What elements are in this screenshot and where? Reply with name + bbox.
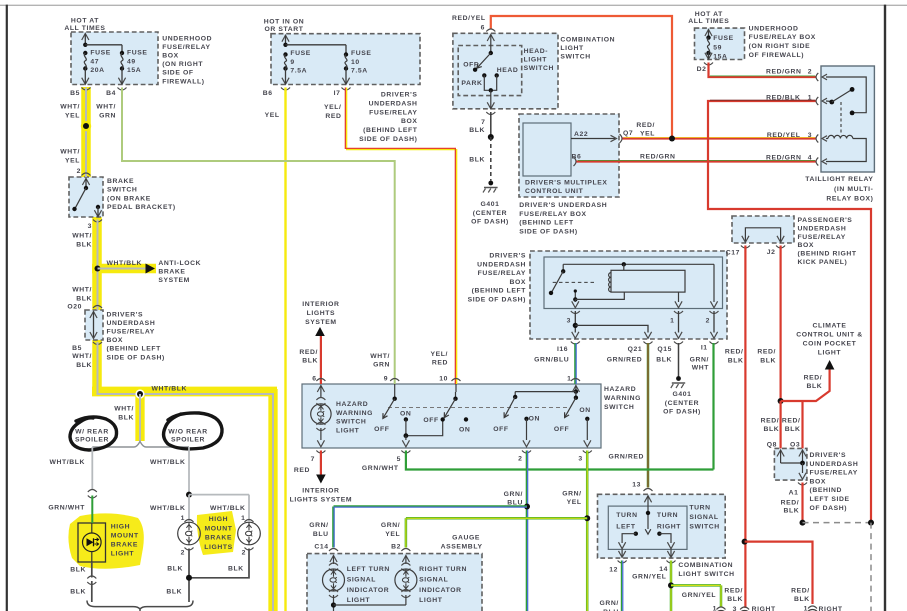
gauge C14 entry (330, 556, 337, 563)
fuse 10 7.5A (344, 52, 348, 56)
svg-text:B5: B5 (72, 345, 82, 352)
svg-text:(BEHIND LEFT: (BEHIND LEFT (107, 346, 162, 353)
svg-text:WARNING: WARNING (604, 395, 641, 402)
svg-text:BLK: BLK (764, 426, 780, 433)
svg-text:BLK: BLK (469, 157, 485, 164)
svg-text:SYSTEM: SYSTEM (305, 319, 337, 326)
svg-text:12: 12 (609, 567, 618, 574)
brake switch box (69, 177, 103, 217)
highlight on WHT/BLK branch to spoiler split (135, 394, 144, 441)
svg-text:C17: C17 (726, 250, 740, 257)
svg-text:(IN MULTI-: (IN MULTI- (834, 186, 873, 193)
svg-text:UNDERDASH: UNDERDASH (369, 100, 418, 107)
lamp high mount brake light 1 (178, 522, 201, 545)
svg-text:GRN: GRN (373, 362, 390, 369)
svg-text:BLK: BLK (70, 567, 86, 574)
gauge lamp bottoms (329, 590, 338, 593)
highlight blob around high mount brake light box (68, 513, 143, 568)
svg-text:HIGH: HIGH (209, 516, 228, 523)
wire BLK Q15 to ground (678, 343, 680, 377)
svg-text:UNDERDASH: UNDERDASH (810, 461, 859, 468)
svg-text:WARNING: WARNING (336, 410, 373, 417)
flasher coil (609, 273, 611, 292)
svg-text:ON: ON (400, 411, 411, 418)
ground G401 (center of dash) (488, 181, 493, 186)
wire GRN/WHT pin5 run (406, 451, 714, 470)
svg-text:GRN/RED: GRN/RED (609, 453, 645, 460)
svg-text:FUSE/RELAY BOX: FUSE/RELAY BOX (519, 211, 586, 218)
svg-text:3: 3 (567, 318, 571, 325)
svg-text:9: 9 (290, 59, 294, 66)
svg-text:ON: ON (459, 427, 470, 434)
svg-text:20A: 20A (90, 67, 104, 74)
combination light switch box (headlight) (453, 33, 558, 109)
svg-text:BRAKE: BRAKE (111, 541, 138, 548)
svg-text:OF DASH): OF DASH) (663, 409, 701, 416)
svg-text:(ON RIGHT SIDE: (ON RIGHT SIDE (749, 43, 811, 50)
svg-text:OF FIREWALL): OF FIREWALL) (749, 52, 805, 59)
wire RED/BLK to climate arrow (781, 370, 830, 402)
relay pin arcs 1/3/4 (816, 97, 818, 105)
svg-text:WHT/: WHT/ (370, 353, 390, 360)
svg-text:SIDE OF DASH): SIDE OF DASH) (468, 297, 526, 304)
svg-text:B5: B5 (70, 90, 80, 97)
svg-text:ALL TIMES: ALL TIMES (688, 18, 729, 25)
svg-text:FUSE: FUSE (713, 35, 734, 42)
node fuse feed junction (83, 43, 87, 47)
svg-text:7.5A: 7.5A (290, 68, 307, 75)
svg-text:W/O REAR: W/O REAR (168, 429, 208, 436)
wire RED/BLK to Q8 (779, 401, 781, 448)
page top border line (0, 4, 907, 6)
svg-text:WHT/: WHT/ (60, 104, 80, 111)
svg-text:BOX: BOX (798, 242, 815, 249)
svg-text:RED/: RED/ (761, 418, 780, 425)
svg-text:WHT: WHT (692, 365, 710, 372)
hand-drawn circle around W/ REAR SPOILER (70, 417, 117, 450)
node BLK junction (488, 134, 494, 140)
node A1 to dashed junction (800, 520, 806, 526)
fuse 47 20A (83, 51, 87, 55)
hazard warning switch box (302, 384, 601, 448)
svg-text:UNDERHOOD: UNDERHOOD (162, 36, 212, 43)
svg-text:2: 2 (242, 550, 246, 557)
svg-text:LEFT SIDE: LEFT SIDE (810, 496, 850, 503)
node pin14 branch (668, 582, 674, 588)
svg-text:PARK: PARK (461, 80, 482, 87)
svg-text:OFF: OFF (374, 426, 389, 433)
svg-text:BLK: BLK (118, 414, 134, 421)
dashed wire down right (870, 523, 872, 611)
svg-text:(BEHIND LEFT: (BEHIND LEFT (519, 220, 574, 227)
svg-text:BLK: BLK (784, 508, 800, 515)
connector arcs outer box exits (571, 342, 580, 345)
exit arrow I7 (342, 78, 349, 85)
svg-text:COMBINATION: COMBINATION (678, 562, 733, 569)
wire WHT/BLK branch down (139, 394, 141, 441)
connector arc B6 (281, 88, 290, 91)
svg-text:2: 2 (808, 69, 812, 76)
svg-text:OR START: OR START (264, 26, 303, 33)
wire RED/BLK branch right (745, 542, 813, 604)
wire WHT/BLK to bulb1 (188, 495, 190, 521)
svg-text:BLK: BLK (794, 596, 810, 603)
svg-text:MOUNT: MOUNT (111, 532, 139, 539)
svg-text:COIN POCKET: COIN POCKET (803, 340, 857, 347)
passenger underdash fuse/relay box (732, 216, 794, 243)
connector arc B5 (82, 88, 91, 91)
arrow up into fuse 59 (705, 30, 712, 37)
taillight relay box (821, 66, 874, 172)
svg-text:FUSE: FUSE (90, 50, 111, 57)
svg-text:9: 9 (384, 376, 388, 383)
svg-text:DRIVER'S: DRIVER'S (489, 253, 526, 260)
wire flasher pin1 down (678, 311, 680, 333)
wire WHT/BLK anti-lock branch (98, 268, 146, 270)
high mount brake light LED box (78, 523, 106, 562)
svg-text:G401: G401 (480, 201, 499, 208)
connector arc I7 (342, 88, 351, 91)
dashed link A1 to right (803, 522, 872, 524)
svg-text:TAILLIGHT RELAY: TAILLIGHT RELAY (805, 176, 873, 183)
svg-text:FUSE/RELAY: FUSE/RELAY (369, 109, 417, 116)
svg-text:SIGNAL: SIGNAL (419, 577, 448, 584)
driver underdash fuse/relay box small (O20-B5) (85, 310, 103, 340)
svg-text:RED/YEL: RED/YEL (452, 15, 486, 22)
svg-text:LIGHT: LIGHT (524, 56, 548, 63)
svg-text:1: 1 (713, 606, 717, 611)
center relay inner box (544, 257, 723, 309)
svg-text:WHT/BLK: WHT/BLK (210, 505, 246, 512)
connector arc headlight pin6 (486, 29, 495, 32)
svg-text:UNDERDASH: UNDERDASH (477, 261, 526, 268)
svg-text:OFF: OFF (423, 417, 438, 424)
connector arc pin13 (644, 489, 653, 492)
svg-text:5: 5 (397, 456, 401, 463)
connector arc A1 (798, 483, 807, 486)
splice split to spoiler options (92, 442, 189, 448)
svg-text:TURN: TURN (657, 512, 678, 519)
svg-text:INTERIOR: INTERIOR (302, 487, 339, 494)
wire BLK bulb2 down (189, 549, 249, 578)
svg-text:SIGNAL: SIGNAL (689, 514, 718, 521)
svg-text:BLK: BLK (76, 295, 92, 302)
wire GRN/BLU branch to C14 (334, 505, 528, 507)
node dashed corner (868, 520, 874, 526)
fuse 59 15A (706, 35, 710, 39)
hazard pin1 internal (572, 386, 579, 393)
svg-text:INTERIOR: INTERIOR (302, 301, 339, 308)
svg-text:3: 3 (578, 456, 582, 463)
highlight on WHT/YEL wire B5 to brake switch (81, 87, 91, 178)
connector arc bulb2 top (245, 520, 254, 523)
svg-text:I7: I7 (334, 90, 341, 97)
relay pin entry arrows (822, 74, 827, 80)
hazard switch linkage dashed (388, 407, 570, 409)
wire WHT/GRN B4 to hazard pin9 (122, 88, 395, 385)
svg-text:3: 3 (733, 606, 737, 611)
svg-text:WHT/: WHT/ (60, 149, 80, 156)
flasher exits to inner edge (574, 299, 576, 302)
svg-text:SIDE OF DASH): SIDE OF DASH) (359, 136, 417, 143)
svg-text:RED: RED (432, 360, 448, 367)
wire WHT/BLK w/ spoiler (91, 447, 93, 490)
connector arc bulb2 bottom (245, 548, 254, 551)
svg-text:WHT/: WHT/ (72, 287, 92, 294)
svg-text:GAUGE: GAUGE (452, 535, 480, 542)
svg-text:6: 6 (481, 25, 485, 32)
wire B6 output (574, 157, 577, 166)
exit arrow B5 (82, 78, 89, 85)
connector arc Q7 (620, 134, 623, 143)
svg-text:B4: B4 (106, 90, 116, 97)
svg-text:D2: D2 (697, 66, 707, 73)
connector arcs inline (spoiler left) (88, 490, 97, 493)
node gauge C14 branch (524, 504, 530, 510)
svg-text:BRAKE: BRAKE (205, 535, 232, 542)
svg-text:7: 7 (311, 456, 315, 463)
svg-text:GRN/RED: GRN/RED (607, 357, 643, 364)
connector arcs inner box exits (571, 311, 580, 314)
turn signal switch inner box (608, 506, 687, 549)
svg-text:GRN/: GRN/ (562, 490, 581, 497)
svg-text:(ON BRAKE: (ON BRAKE (107, 195, 151, 202)
svg-text:LIGHT SWITCH: LIGHT SWITCH (678, 571, 734, 578)
connector arcs hazard bottom (316, 451, 325, 454)
highlight on WHT/BLK wire brake switch to corner (92, 216, 102, 311)
svg-text:2: 2 (181, 550, 185, 557)
turn signal switch internals (644, 496, 651, 503)
svg-text:1: 1 (181, 515, 185, 522)
svg-text:RED/GRN: RED/GRN (640, 153, 676, 160)
svg-text:10: 10 (351, 59, 360, 66)
svg-text:1: 1 (567, 376, 571, 383)
wire WHT/BLK to bulb2 (248, 495, 250, 521)
svg-text:BOX: BOX (107, 337, 124, 344)
wire RED/BLK to O3 (801, 401, 803, 448)
svg-text:HEAD: HEAD (497, 67, 519, 74)
wire GRN/BLU hazard pin2 down (525, 451, 527, 611)
wire GRN/WHT I1 down (712, 343, 714, 470)
highlight on WHT/BLK horizontal run (92, 387, 277, 397)
svg-text:SIGNAL: SIGNAL (347, 577, 376, 584)
svg-text:RED/: RED/ (757, 349, 776, 356)
svg-text:LIGHTS SYSTEM: LIGHTS SYSTEM (290, 496, 353, 503)
lamp hazard warning switch light (311, 404, 331, 424)
fuse 49 15A (120, 51, 124, 55)
wire A22 output (571, 138, 615, 140)
svg-text:LIGHTS: LIGHTS (307, 310, 336, 317)
svg-text:YEL: YEL (567, 499, 582, 506)
wire WHT/BLK brake switch down (97, 220, 99, 311)
svg-text:1: 1 (804, 606, 808, 611)
svg-text:GRN/: GRN/ (690, 357, 709, 364)
svg-text:FUSE/RELAY: FUSE/RELAY (810, 470, 858, 477)
lamp right turn signal indicator (395, 569, 417, 591)
svg-text:7: 7 (481, 119, 485, 126)
wire flasher pin2 down (713, 311, 715, 333)
svg-text:YEL: YEL (385, 531, 400, 538)
svg-text:WHT/: WHT/ (96, 104, 116, 111)
svg-text:DRIVER'S: DRIVER'S (107, 312, 144, 319)
svg-text:GRN/WHT: GRN/WHT (362, 465, 399, 472)
hazard lamp bottom exit (316, 422, 325, 425)
headlight switch inner box (458, 46, 522, 96)
svg-text:Q15: Q15 (657, 346, 672, 353)
wire GRN/YEL pin14 down (670, 561, 673, 611)
svg-text:ON: ON (579, 407, 590, 414)
svg-text:DRIVER'S: DRIVER'S (381, 92, 418, 99)
arrow into headlight switch (487, 35, 494, 42)
svg-text:SWITCH: SWITCH (560, 53, 590, 60)
svg-text:YEL/: YEL/ (324, 104, 342, 111)
svg-text:WHT/BLK: WHT/BLK (107, 260, 143, 267)
svg-text:(ON RIGHT: (ON RIGHT (162, 61, 203, 68)
driver multiplex outer dashed box (519, 114, 619, 197)
wire RED/YEL top run (491, 16, 672, 139)
svg-text:BRAKE: BRAKE (107, 178, 134, 185)
svg-text:YEL: YEL (65, 157, 80, 164)
svg-text:GRN: GRN (99, 112, 116, 119)
svg-text:RED/YEL: RED/YEL (767, 132, 801, 139)
svg-text:HOT IN ON: HOT IN ON (264, 19, 305, 26)
svg-text:47: 47 (90, 58, 99, 65)
svg-text:Q7: Q7 (623, 130, 633, 137)
svg-text:WHT/BLK: WHT/BLK (150, 505, 186, 512)
svg-text:FUSE: FUSE (290, 50, 311, 57)
arrow to climate control unit (825, 360, 835, 370)
arrow up into fuse 9 (282, 35, 289, 42)
svg-text:O20: O20 (67, 304, 82, 311)
wire flasher pin3 to I16/Q21 (574, 311, 576, 333)
page left border line (6, 5, 8, 611)
connector arc brake switch pin2 (82, 173, 91, 176)
svg-text:HOT AT: HOT AT (71, 18, 99, 25)
svg-text:RIGHT: RIGHT (752, 606, 776, 611)
arrow up into hot feed fuse 47 (82, 34, 89, 41)
hand-drawn circle around W/O REAR SPOILER (164, 413, 223, 449)
svg-text:SWITCH: SWITCH (689, 523, 719, 530)
connector arc bulb1 bottom (185, 548, 194, 551)
svg-text:RED: RED (325, 113, 341, 120)
svg-text:J2: J2 (767, 249, 776, 256)
svg-text:LIGHT: LIGHT (818, 349, 842, 356)
wire WHT/YEL B5 to brake switch (85, 88, 87, 178)
arrow out of O20 box (90, 332, 97, 339)
svg-text:59: 59 (713, 44, 722, 51)
highlight on WHT/BLK right vertical run (268, 389, 277, 611)
svg-text:MOUNT: MOUNT (205, 525, 233, 532)
svg-text:WHT/: WHT/ (72, 353, 92, 360)
svg-text:UNDERDASH: UNDERDASH (798, 225, 847, 232)
svg-text:DRIVER'S MULTIPLEX: DRIVER'S MULTIPLEX (525, 180, 608, 187)
svg-text:(BEHIND LEFT: (BEHIND LEFT (363, 127, 418, 134)
node J2 branch junction (778, 398, 784, 404)
svg-text:BLK: BLK (785, 426, 801, 433)
svg-text:SIDE OF DASH): SIDE OF DASH) (107, 354, 165, 361)
svg-text:BLK: BLK (469, 127, 485, 134)
svg-text:HEAD-: HEAD- (524, 48, 549, 55)
svg-text:2: 2 (77, 168, 81, 175)
wire GRN/BLU pin12 down (620, 561, 622, 611)
svg-text:B6: B6 (263, 90, 273, 97)
highlight on anti-lock branch wire (92, 264, 156, 274)
svg-text:49: 49 (127, 58, 136, 65)
svg-text:RED/: RED/ (782, 418, 801, 425)
svg-text:I16: I16 (557, 346, 568, 353)
svg-text:A1: A1 (789, 489, 799, 496)
fuse 9 7.5A (283, 52, 287, 56)
svg-text:BLK: BLK (228, 566, 244, 573)
svg-text:YEL/: YEL/ (430, 351, 448, 358)
svg-text:FUSE/RELAY: FUSE/RELAY (107, 329, 155, 336)
arrow into O20 box (90, 312, 97, 319)
wire WHT/BLK long run (98, 342, 274, 611)
svg-text:YEL: YEL (640, 131, 655, 138)
svg-text:DRIVER'S UNDERDASH: DRIVER'S UNDERDASH (519, 202, 607, 209)
turn signal exits (621, 549, 623, 556)
wire RED/BLK hazard pin6 up (320, 336, 322, 384)
lamp right rear (bottom edge) (806, 610, 819, 611)
svg-text:INDICATOR: INDICATOR (347, 587, 390, 594)
svg-text:GRN/YEL: GRN/YEL (632, 574, 666, 581)
svg-text:BLK: BLK (727, 596, 743, 603)
node fuse9/10 feed (283, 43, 287, 47)
svg-text:SPOILER: SPOILER (171, 436, 205, 443)
wire YEL/RED fuse10 to hazard pin10 (344, 88, 346, 150)
svg-text:(BEHIND: (BEHIND (810, 487, 843, 494)
svg-text:FIREWALL): FIREWALL) (162, 78, 204, 85)
svg-text:WHT/BLK: WHT/BLK (150, 459, 186, 466)
svg-text:BLK: BLK (166, 589, 182, 596)
hazard switch pole3 (514, 392, 516, 397)
connector arc headlight pin7 (486, 112, 495, 115)
ground G401 (Q15) (676, 376, 681, 381)
hazard switch pole1 (394, 384, 396, 399)
svg-text:FUSE/RELAY BOX: FUSE/RELAY BOX (749, 34, 816, 41)
svg-text:RIGHT TURN: RIGHT TURN (419, 566, 467, 573)
svg-text:LIGHT: LIGHT (419, 597, 443, 604)
svg-text:WHT/BLK: WHT/BLK (49, 459, 85, 466)
hazard switch pole4 (575, 392, 577, 398)
exit arrow brake switch pin3 (94, 210, 101, 217)
svg-text:BLK: BLK (70, 589, 86, 596)
svg-text:BLK: BLK (302, 358, 318, 365)
svg-text:LIGHT: LIGHT (336, 427, 360, 434)
svg-text:CONTROL UNIT &: CONTROL UNIT & (796, 331, 862, 338)
svg-text:LEFT: LEFT (616, 524, 636, 531)
svg-text:RED/GRN: RED/GRN (766, 69, 802, 76)
center driver underdash fuse/relay box outer (530, 251, 727, 339)
svg-text:GRN/: GRN/ (309, 522, 328, 529)
connector arc B4 (118, 88, 127, 91)
svg-text:OF DASH): OF DASH) (810, 505, 848, 512)
svg-text:FUSE/RELAY: FUSE/RELAY (162, 44, 210, 51)
page right border line (884, 5, 886, 611)
svg-text:COMBINATION: COMBINATION (560, 37, 615, 44)
relay internal contact circuit (826, 77, 866, 113)
svg-text:RED/: RED/ (724, 587, 743, 594)
svg-text:BRAKE: BRAKE (158, 268, 185, 275)
gauge B2 entry (402, 556, 409, 563)
svg-text:BOX: BOX (401, 118, 418, 125)
svg-text:C14: C14 (314, 543, 328, 550)
svg-text:GRN/: GRN/ (599, 600, 618, 607)
connector arcs inline (LED gnd) (87, 576, 96, 579)
connector arcs C17 J2 (741, 246, 750, 249)
wire RED/GRN D2 to relay pin2 (709, 63, 817, 78)
lamp left turn signal indicator (323, 569, 345, 591)
